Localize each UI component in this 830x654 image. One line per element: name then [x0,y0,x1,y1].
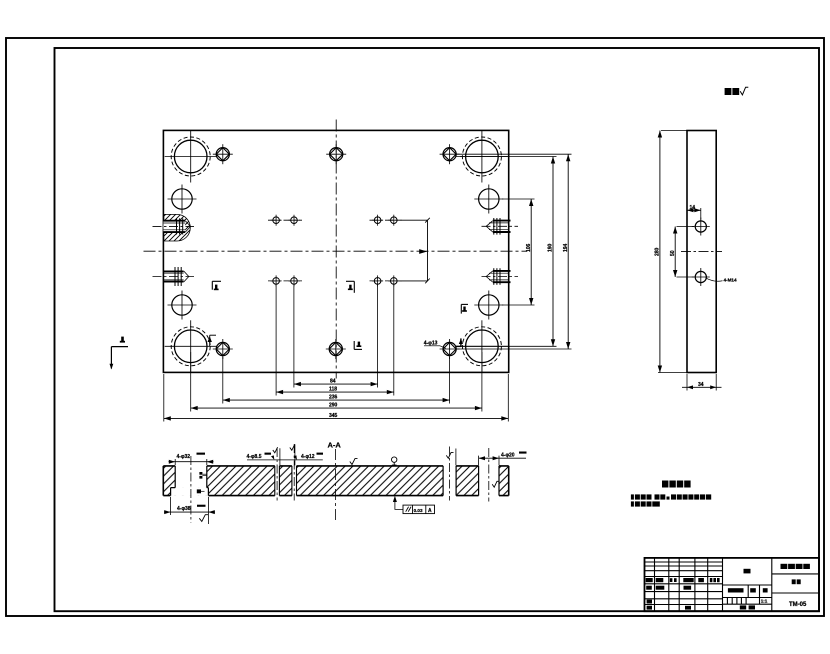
side view width dimension 34 [682,374,722,391]
side tapped hole top-right [482,218,519,235]
svg-text:106: 106 [526,243,532,252]
svg-text:4-φ32: 4-φ32 [177,454,191,460]
side view leader 4-M14 [706,277,737,282]
dimension pin-hole span (vertical right outer) [563,154,571,349]
title block part name [792,579,801,584]
section mark A near left row2 [212,281,221,290]
technical notes heading [662,481,691,488]
right dimension extension lines [456,153,572,155]
side tapped hole top-left with hatched breakout [153,214,195,241]
svg-text:TM-05: TM-05 [789,602,807,608]
pin hole top-center [326,144,346,164]
svg-text:84: 84 [330,379,336,385]
pin hole top-left [213,144,233,164]
title block company name [781,564,810,569]
pin hole bottom-left [213,339,233,359]
horizontal centerline [144,250,528,252]
technical notes line2 [631,501,660,506]
vertical centerline [335,120,337,379]
datum symbol on top edge [392,457,397,466]
svg-text:236: 236 [329,395,338,401]
roughness mark inside lower counterbore [197,489,205,493]
section bar outline segments top [163,465,508,467]
pin hole bottom-right [440,339,460,359]
pin hole walls [443,466,456,496]
geometric tolerance frame parallel 0.03 A [393,496,435,514]
surface note top right [725,87,749,95]
dimension 4-phi20 right hole [479,452,527,466]
title block middle verticals [727,558,771,611]
guide hole bottom-right [456,320,508,372]
small hole walls [275,466,297,496]
section arrow mark far left [110,337,129,370]
tiny hole row2 [271,275,282,286]
dimension 236 bottom [223,395,450,403]
dimension 4-phi32 above counterbore [169,453,214,465]
guide hole top-left [165,131,217,183]
inner border frame [55,48,820,611]
svg-text:A: A [428,508,432,514]
section mark A near bottom-center pin [354,341,362,349]
svg-text:4-φ8.5: 4-φ8.5 [247,454,262,460]
svg-text:50: 50 [670,250,676,256]
technical notes line1 [631,494,711,499]
counterbore hole walls [171,466,209,496]
side view height dimension [655,131,688,373]
section mark A near center row2 [346,281,354,293]
dimension guide-hole span (vertical right middle) [548,157,556,347]
dimension 84 bottom [294,379,378,387]
title block left grid verticals [655,558,723,611]
svg-text:290: 290 [329,403,338,409]
title block sheet count labels [740,605,755,609]
svg-text:190: 190 [548,243,554,252]
side view plate outline [687,131,716,373]
dimension medium-hole span (vertical right inner) [526,199,534,305]
title block row2 labels [646,586,691,590]
svg-text:1:1: 1:1 [761,599,768,604]
title block material cell mark [744,569,751,574]
roughness mark at pin hole centerline [446,452,453,458]
tiny hole pair centerlines [268,219,302,221]
label 4-phi12 small holes [290,445,323,460]
dimension 290 bottom [191,403,482,411]
medium hole bottom-right [474,291,503,320]
svg-text:4-φ20: 4-φ20 [501,453,515,459]
title block middle horizontals [723,585,772,604]
medium hole bottom-left [168,291,197,320]
side tapped hole bottom-left [153,267,195,286]
title block header row labels [646,578,720,582]
title block left grid horizontals [645,562,723,605]
dimension 4-phi38 below counterbore [164,497,215,524]
side view hole spacing dimension [670,227,694,278]
dimension 118 bottom [276,387,394,395]
label 4-phi13 with leader [424,341,446,349]
svg-text:4-φ12: 4-φ12 [301,454,315,460]
medium hole top-right [474,185,503,214]
side view hole bottom [692,268,710,286]
section bar outline segments bottom [163,495,508,497]
svg-text:14: 14 [690,205,696,211]
section bar ends [162,466,164,496]
cutting line tick at bottom-right guide hole [456,338,464,346]
svg-text:280: 280 [655,247,661,256]
guide hole top-right [456,131,508,183]
side view centerline [681,250,722,252]
svg-text:4-φ38: 4-φ38 [177,506,191,512]
section centerlines [190,456,192,523]
bracket dimension between tiny hole rows [399,218,430,283]
svg-text:118: 118 [329,387,337,393]
roughness mark inside right hole [492,481,499,487]
pin hole top-right [440,144,460,164]
title block outline [645,558,820,611]
roughness mark on top edge [350,459,358,465]
svg-text:0.03: 0.03 [414,508,423,513]
svg-text:4-M14: 4-M14 [724,277,737,282]
cutting line tick at bottom-left guide hole [208,335,217,346]
section mark A near right medium hole [461,304,468,313]
pin hole bottom-center [326,339,346,359]
svg-text:A-A: A-A [328,441,342,450]
section bar hatched body [163,465,508,496]
side tapped hole bottom-right [482,268,519,285]
roughness mark inside upper counterbore [199,472,206,479]
svg-text:194: 194 [563,243,569,252]
title block stage row labels [728,588,768,592]
side view dimension 14 [687,205,701,220]
label 4-phi8.5 small holes [247,444,323,465]
plate outline top view [163,130,508,372]
svg-text:34: 34 [698,382,704,388]
title block lower-left labels [647,600,691,610]
dimension 345 bottom [164,413,509,421]
guide hole bottom-left [165,320,217,372]
bottom dimension extension lines [163,374,165,422]
svg-text:345: 345 [329,413,338,419]
side view hole top [692,218,710,236]
tiny hole row1 [271,215,282,226]
medium hole walls [479,466,499,496]
title block right horizontals [772,574,819,593]
medium hole top-left [168,185,197,214]
